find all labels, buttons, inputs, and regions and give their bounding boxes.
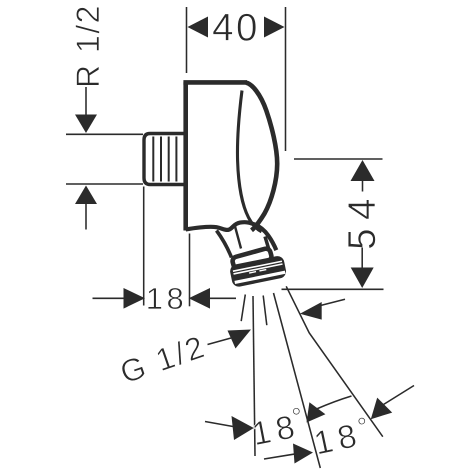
angle dim 2: left leader line <box>264 454 296 459</box>
dimension 54: lower reference line <box>282 288 384 290</box>
dimension 54: down arrow <box>351 268 374 289</box>
nipple thread line 4 <box>175 137 177 182</box>
angle dim 1: left leader line <box>205 422 233 427</box>
dimension 18: right arrow <box>189 288 210 309</box>
dimension 54: up arrow <box>351 160 375 181</box>
dimension R 1/2: dimension line lower <box>85 204 87 230</box>
dimension 40: left extension line <box>186 7 188 73</box>
dimension 18: left extension line <box>143 187 145 306</box>
svg-text:40: 40 <box>212 7 260 50</box>
connector neck left line <box>217 231 232 258</box>
dimension 40: left arrow <box>188 17 209 38</box>
spray stroke 2 <box>263 296 267 326</box>
dimension 54: upper reference line <box>294 158 383 160</box>
connector neck right line <box>265 237 270 253</box>
spray centre line 18 deg <box>274 293 321 468</box>
nipple thread line 2 <box>160 137 162 182</box>
dimension R 1/2: lower extension line <box>66 183 143 185</box>
dimension 18: right extension line <box>189 234 191 307</box>
escutcheon right bulge curve <box>246 83 277 231</box>
spray outer boundary line <box>286 286 383 436</box>
dimension R 1/2: dimension line upper <box>85 87 87 115</box>
nipple thread line 1 <box>152 137 154 182</box>
angle dim 2: right leader line <box>384 386 415 405</box>
angle dim 2: right arrow <box>371 398 392 420</box>
nut white stripe 2 <box>234 264 283 274</box>
nut knurl dash 1 <box>249 272 256 273</box>
escutcheon bottom wavy edge <box>186 222 277 250</box>
svg-text:54: 54 <box>341 190 384 250</box>
dimension 54: upper stub line <box>362 181 364 192</box>
nut knurl dash 2 <box>259 270 266 271</box>
svg-text:R 1/2: R 1/2 <box>70 4 106 88</box>
dimension R 1/2: up arrow <box>75 186 97 205</box>
angle dim 1: left arrow <box>232 416 254 440</box>
nut white stripe 1 <box>233 261 282 271</box>
spray stroke 1 <box>241 295 245 322</box>
angle dim 1: right arrow <box>307 402 326 422</box>
dimension 40: right arrow <box>264 17 285 38</box>
spray reference vertical line <box>253 296 255 456</box>
escutcheon body left edge <box>183 82 188 230</box>
nipple thread line 3 <box>168 137 170 182</box>
leader line from 54 line <box>321 299 346 305</box>
connector upper band <box>232 248 273 270</box>
escutcheon front face curve <box>237 91 261 232</box>
G 1/2 leader line <box>208 338 232 345</box>
dimension 18: left arrow <box>124 288 146 309</box>
angle dim 1: right leader line <box>317 396 352 409</box>
nut white stripe 3 <box>235 272 285 282</box>
connector nut body <box>229 255 287 288</box>
connector neck inner line <box>235 225 242 249</box>
dimension R 1/2: upper extension line <box>66 133 143 135</box>
dimension 18: right leader line <box>210 297 236 299</box>
angle dim 2: left arrow <box>293 444 313 464</box>
dimension R 1/2: down arrow <box>75 115 97 134</box>
escutcheon body top edge <box>183 80 247 85</box>
dimension 54: lower stub line <box>361 248 363 268</box>
dimension 40: right extension line <box>285 7 287 151</box>
leader arrow to outer spray line from 54 line <box>300 302 322 320</box>
threaded nipple body <box>144 134 188 185</box>
G 1/2 arrow <box>228 330 252 349</box>
dimension 18: left leader line <box>93 297 125 299</box>
svg-text:18: 18 <box>146 281 187 316</box>
